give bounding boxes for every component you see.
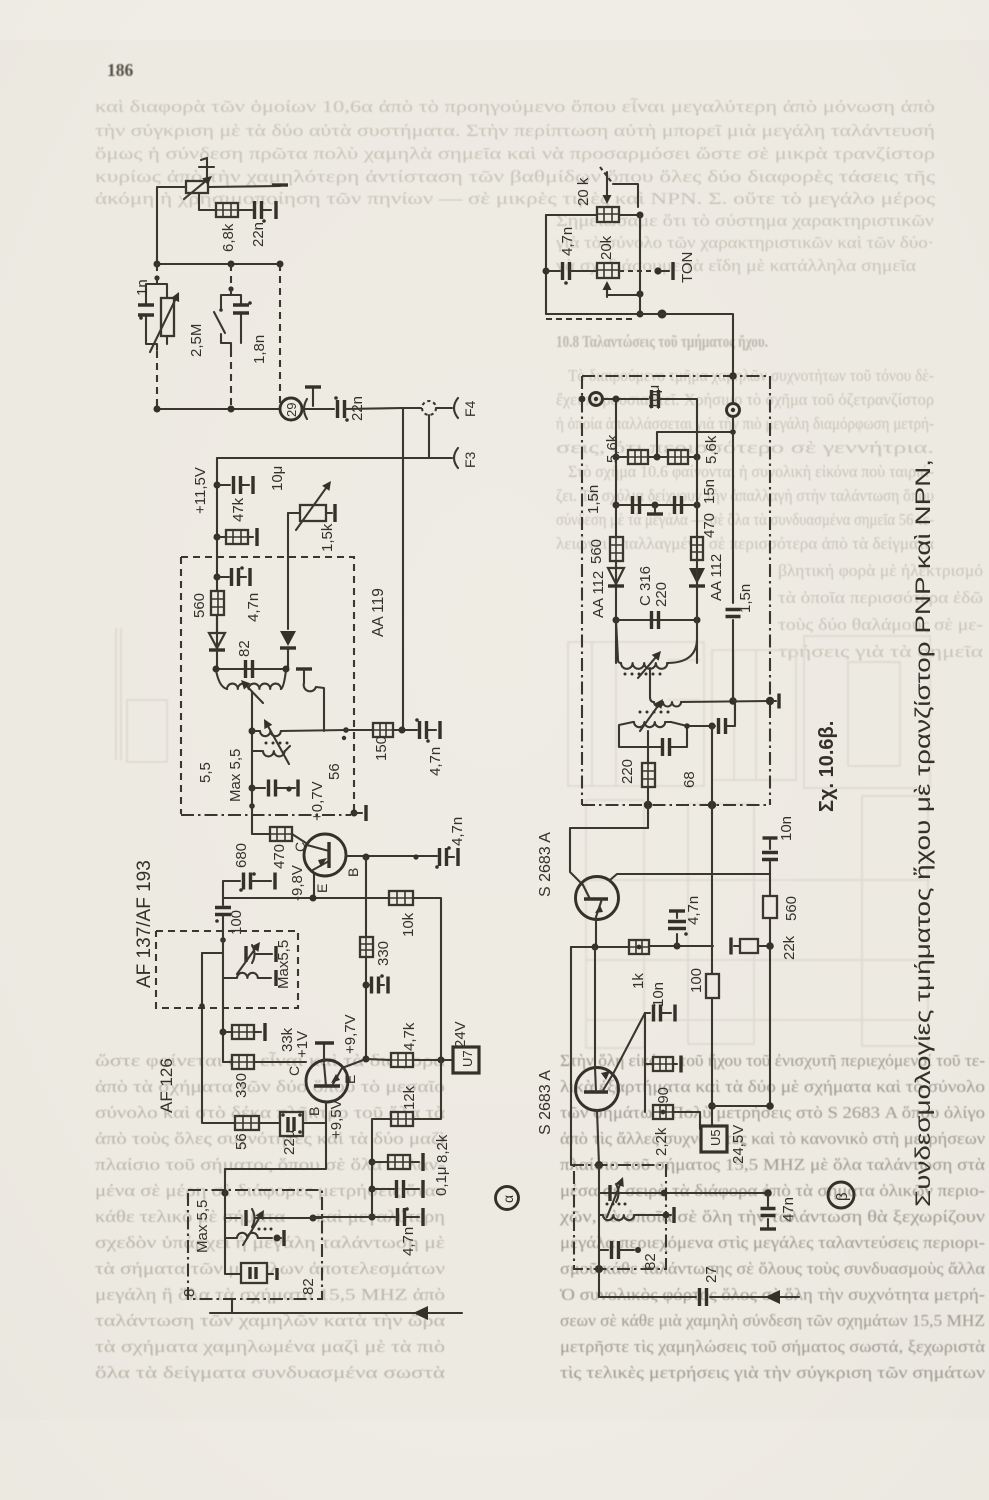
trimmer cap Max5,5	[237, 942, 276, 974]
label -9,8V	[289, 865, 306, 901]
dash-dot box bottom	[181, 805, 366, 821]
label +0,7V	[309, 781, 326, 821]
wire 68 drop	[711, 726, 713, 805]
wire emitter row	[366, 1059, 391, 1060]
dot under 22n	[262, 219, 266, 223]
label B	[306, 1107, 322, 1116]
label 10u	[269, 466, 286, 491]
label F4	[462, 400, 478, 417]
potentiometer 1,5k	[288, 481, 335, 530]
label 27	[703, 1266, 720, 1283]
label AA 112	[708, 554, 725, 601]
label 2,5M	[188, 324, 205, 357]
resistor 330 collector	[223, 1055, 306, 1069]
wire signal vertical x403	[402, 408, 404, 730]
label 24V	[452, 1021, 469, 1048]
trimmer cap 1n network	[138, 278, 179, 352]
label AF 126	[157, 1058, 176, 1113]
label S 2683 A t4	[537, 1070, 554, 1135]
wire 20k row	[546, 212, 644, 219]
label AA112	[590, 571, 607, 618]
label 330	[233, 1073, 250, 1098]
capacitor 82	[246, 660, 253, 678]
transformer2 mid coil	[650, 697, 774, 707]
signal arrow line b	[599, 1290, 799, 1304]
label 0,1u	[433, 1167, 450, 1197]
diode D2 AA119	[280, 631, 296, 669]
capacitor 15n b	[675, 496, 682, 514]
label 5,5	[197, 762, 214, 783]
capacitor 220	[652, 611, 659, 629]
wire emitter row	[571, 944, 629, 951]
signal arrow line a	[210, 1306, 462, 1320]
wire dashed	[279, 264, 281, 409]
wiper arrow	[603, 281, 644, 298]
label 1,5n	[737, 584, 754, 613]
capacitor 1,5n top	[726, 432, 741, 701]
diode D1	[209, 633, 225, 669]
label 4,7k	[401, 1022, 418, 1051]
label 220	[653, 582, 670, 607]
connector socket dashed	[422, 401, 436, 415]
label 220	[619, 759, 636, 784]
label 82	[236, 640, 253, 657]
label 82	[300, 1278, 317, 1295]
label C	[286, 1066, 302, 1076]
wire y409	[154, 406, 281, 413]
wire	[696, 457, 698, 663]
wire	[657, 429, 736, 457]
wire bias column	[644, 1013, 646, 1112]
wire	[199, 193, 216, 210]
label AA 119	[370, 588, 387, 637]
resistor 220 damp	[642, 731, 655, 805]
resistor 100	[706, 974, 719, 998]
wire dashed	[230, 264, 232, 287]
node	[220, 937, 226, 943]
wire stub b	[598, 1269, 600, 1297]
supply box U5 24,5V	[701, 1126, 727, 1152]
dashed box trimmer	[156, 931, 298, 1008]
diode AA112 left	[608, 568, 624, 586]
wire base link T3	[570, 828, 648, 885]
wire	[208, 186, 280, 187]
wire	[302, 408, 334, 410]
wire mid x713	[711, 805, 713, 974]
potentiometer 20k a	[597, 207, 619, 222]
resistor 12k	[391, 1112, 413, 1126]
wire	[413, 1060, 441, 1119]
wire emitter row	[223, 895, 389, 902]
tuning arrow t2	[640, 699, 663, 731]
tank loop	[619, 722, 716, 747]
wire dashed	[156, 264, 158, 276]
designator a	[496, 1187, 519, 1210]
label 6,8k	[220, 223, 237, 252]
label TON	[679, 252, 696, 283]
wire AGC x288	[287, 513, 289, 629]
wire divider x616	[613, 399, 620, 663]
mic polarisation	[304, 387, 321, 419]
resistor 470 d	[691, 537, 703, 560]
capacitor 4,7n agc	[217, 566, 250, 586]
plug F4	[454, 398, 458, 418]
resistor 56	[203, 1116, 280, 1130]
wire base t4	[597, 1110, 599, 1165]
resistor 560	[211, 591, 224, 615]
label 8	[181, 1289, 198, 1297]
wire drop to F3 row	[428, 415, 430, 458]
capacitor 4,7n out	[310, 1207, 424, 1226]
wire 82 row	[213, 666, 290, 673]
label 560	[191, 593, 208, 618]
capacitor 680	[223, 872, 275, 898]
label 4,7n det	[427, 747, 444, 776]
transformer secondary coil	[252, 730, 346, 736]
capacitor 10n t4	[645, 1005, 675, 1022]
transformer2 low coil	[633, 722, 671, 727]
wire	[238, 209, 252, 211]
wire emitter	[595, 917, 597, 947]
capacitor 82 b	[599, 1241, 641, 1259]
label 10u	[646, 385, 663, 410]
trimmer row b	[599, 1189, 772, 1197]
label AF 137/AF 193	[134, 860, 155, 988]
label S 2683 A t3	[537, 832, 554, 897]
label 1,5k	[319, 523, 336, 552]
coil tone	[225, 1218, 284, 1246]
capacitor bypass	[366, 974, 388, 993]
ground tap	[647, 505, 663, 514]
core dots	[265, 742, 289, 745]
capacitor 10u	[217, 476, 253, 494]
label 150	[373, 736, 390, 761]
resistor 5,6k b	[668, 450, 688, 464]
wire 220 row	[616, 617, 701, 624]
node out	[658, 310, 667, 319]
resistor 2,2k	[653, 1105, 700, 1129]
wire rail y458	[217, 457, 452, 459]
label 15n	[701, 479, 718, 504]
label 4,7n	[449, 817, 466, 846]
caption fig number	[816, 721, 838, 812]
node	[579, 396, 586, 403]
capacitor 22n mic	[334, 396, 349, 422]
capacitor 1,5n link	[712, 701, 735, 734]
transistor T3 S2683A	[576, 877, 619, 920]
capacitor 22n	[255, 201, 262, 219]
capacitor 47n b	[760, 1193, 776, 1229]
node box bottom	[249, 803, 255, 809]
collector measure point	[315, 1043, 334, 1062]
wire	[363, 957, 370, 1059]
wire	[708, 998, 716, 1126]
wire emitter	[313, 874, 315, 898]
capacitor 0,1u	[372, 1180, 423, 1198]
wire	[598, 1165, 600, 1269]
wire	[157, 187, 186, 264]
wire	[220, 978, 227, 1062]
label +11,5V	[192, 467, 209, 514]
wire emitter	[342, 1056, 370, 1069]
core dots t2	[624, 673, 662, 676]
label 10n	[778, 816, 795, 841]
node	[729, 372, 737, 380]
label B	[345, 868, 361, 877]
terminal TON	[661, 262, 673, 280]
label 12k	[401, 1085, 418, 1110]
label 20k	[598, 235, 615, 260]
capacitor 100	[215, 898, 231, 940]
trimmer row	[225, 1217, 322, 1219]
trimmer cap b	[607, 1177, 624, 1217]
label Max 5,5	[194, 1200, 211, 1253]
tuning arrow long	[264, 719, 289, 764]
label +9,7V	[342, 1014, 359, 1054]
label 10n	[650, 982, 667, 1007]
wire 5,6k row	[616, 454, 701, 461]
tank capacitor 68	[663, 738, 670, 756]
label F3	[462, 451, 478, 468]
label C 316	[637, 566, 654, 606]
wire 1,5n row	[616, 502, 701, 509]
terminal bar	[772, 694, 779, 709]
wire	[603, 396, 648, 403]
wire dash to TON	[619, 267, 662, 274]
wire bus y264	[154, 261, 284, 268]
label 56	[233, 1133, 250, 1150]
wire stub	[231, 1299, 233, 1313]
wire	[436, 407, 452, 409]
label 1k	[630, 973, 647, 989]
label 22n	[250, 222, 267, 247]
label Max5,5	[275, 940, 292, 989]
label +1V	[294, 1031, 311, 1058]
resistor 1k	[629, 940, 649, 954]
label 1,5n	[585, 485, 602, 514]
switch 2,5M with cap 1,8n	[214, 289, 252, 350]
coil trimmer	[223, 970, 276, 986]
label 10k	[400, 912, 417, 937]
label 330	[375, 941, 392, 966]
designator b	[828, 1182, 854, 1208]
dashed box AF137 stage	[181, 557, 354, 814]
label 560	[783, 896, 800, 921]
core dots t2b	[639, 711, 670, 714]
node	[154, 275, 159, 280]
tap bar	[296, 669, 312, 683]
label 4,7n	[685, 896, 702, 925]
capacitor 10n top	[762, 838, 778, 874]
capacitor 10u coupling	[652, 390, 698, 457]
label Max 5,5	[227, 749, 244, 802]
dash-dot box tone b	[571, 1165, 666, 1269]
microphone 29	[280, 398, 302, 420]
node	[343, 727, 349, 733]
capacitor 4,7n det	[415, 718, 440, 743]
node	[228, 286, 233, 291]
wire	[345, 408, 421, 409]
wire base divider x366	[365, 857, 367, 937]
capacitor 0,7V node	[252, 780, 298, 797]
wire	[202, 940, 223, 978]
resistor 22k	[731, 938, 774, 955]
label 4,7n	[400, 1227, 417, 1256]
wire	[262, 201, 276, 219]
label 82 b	[642, 1253, 659, 1270]
tuning arrow	[241, 680, 263, 703]
terminal probe symbol	[199, 158, 214, 182]
wire collector feed T3	[647, 805, 649, 828]
terminal bar	[272, 183, 288, 186]
label 20 k	[575, 177, 592, 206]
tap coil	[304, 683, 324, 731]
resistor 33k	[223, 1023, 265, 1041]
input dashed arrow	[600, 167, 638, 207]
dash-dot box tone	[188, 1190, 322, 1299]
capacitor 1,5n a	[633, 496, 640, 514]
dash-dot box demodulator	[582, 376, 770, 805]
wire	[216, 615, 218, 631]
resistor 470	[270, 827, 292, 841]
label C	[292, 842, 308, 852]
wire right x640	[639, 215, 641, 314]
jack socket left	[590, 393, 603, 406]
wire	[292, 834, 306, 843]
wire feed down	[570, 947, 572, 1165]
wire left bus x202	[199, 953, 205, 1123]
label 5,6k	[604, 434, 621, 463]
label 22n	[349, 396, 366, 421]
resistor 4,7k	[391, 1053, 413, 1067]
wire 150 row	[346, 727, 417, 734]
label 470	[701, 513, 718, 538]
resistor 8,2k	[372, 1153, 423, 1171]
label 24,5V	[730, 1125, 747, 1164]
transformer primary coil	[216, 670, 286, 689]
label 390	[655, 1087, 672, 1112]
wire	[413, 1057, 453, 1064]
resistor 6,8k	[216, 203, 238, 217]
label 47n	[780, 1197, 797, 1222]
wire	[369, 1119, 392, 1221]
label 4,7n	[245, 593, 262, 622]
label 680	[233, 843, 250, 868]
resistor 10k	[389, 891, 413, 905]
resistor 330 base	[360, 937, 373, 957]
label 1n	[134, 279, 151, 296]
wire rail column x217	[214, 458, 221, 651]
jack socket right	[727, 376, 740, 432]
caption text	[912, 459, 935, 1207]
wire emitter t4	[613, 1013, 645, 1074]
potentiometer P1 volume	[184, 176, 212, 199]
resistor 560 d	[610, 537, 623, 561]
wire to IF box	[640, 314, 733, 376]
wire supply x770	[769, 946, 771, 1106]
transformer winding 3	[252, 746, 290, 756]
label 1,8n	[251, 335, 268, 364]
coil b	[599, 1207, 674, 1223]
transistor T2 AF126	[306, 1060, 348, 1102]
wire secondary vertical	[249, 692, 256, 792]
resistor 150	[373, 723, 393, 737]
label 56	[326, 763, 343, 780]
transistor T1 AF137	[304, 834, 346, 876]
node entry	[221, 1189, 228, 1196]
wire dashed	[156, 351, 158, 409]
capacitor 4,7n t3	[668, 911, 688, 946]
core dots	[258, 1228, 273, 1231]
transformer2 top coil	[616, 620, 697, 669]
label 22k	[781, 935, 798, 960]
capacitor 4,7n tone	[546, 262, 597, 285]
coupling link	[649, 668, 651, 697]
wire left x546	[543, 215, 550, 314]
capacitor 27	[700, 1288, 707, 1306]
label 470	[271, 844, 288, 869]
wire to 470	[252, 788, 270, 834]
resistor 5,6k a	[628, 450, 648, 464]
label 8,2k	[434, 1134, 451, 1163]
core dots b	[606, 1203, 627, 1206]
wire row	[712, 1102, 774, 1110]
label E	[342, 1075, 358, 1084]
wire feedback	[225, 1123, 326, 1190]
label 47k	[230, 497, 247, 522]
label +9,5V	[328, 1099, 345, 1139]
wire	[413, 898, 441, 1059]
node small	[342, 736, 346, 740]
wire base	[303, 1102, 326, 1123]
capacitor 82 boxed	[225, 1238, 277, 1283]
resistor 390	[645, 1056, 681, 1073]
trimmer cap	[243, 1209, 264, 1245]
label 5,6k	[703, 435, 720, 464]
plug F3	[454, 448, 458, 468]
wire collector	[610, 874, 770, 880]
node	[595, 1265, 603, 1273]
potentiometer 20k b	[597, 263, 619, 278]
resistor 560 load	[763, 874, 777, 946]
wire bottom	[546, 311, 644, 318]
dash-dot bus ground	[582, 801, 770, 809]
wire T3T4 link	[594, 947, 596, 1067]
label 100	[228, 910, 245, 935]
label 22u	[281, 1130, 298, 1155]
tuning arrow	[638, 651, 661, 678]
label 2,2k	[653, 1127, 670, 1156]
diode AA112 right	[689, 568, 705, 586]
label 100	[688, 968, 705, 993]
label 4,7n	[559, 227, 576, 256]
label 33k	[279, 1027, 296, 1052]
resistor 47k	[217, 528, 257, 546]
wire base	[346, 854, 437, 861]
supply box U7 24V	[453, 1047, 479, 1073]
node	[595, 1161, 603, 1169]
wire dashed return	[546, 318, 634, 320]
label E	[314, 884, 330, 893]
label 68	[681, 771, 698, 788]
transistor T4 S2683A	[576, 1067, 619, 1111]
label 560	[588, 539, 605, 564]
capacitor 4,7n base	[435, 846, 458, 869]
wire dashed	[230, 350, 232, 409]
wire	[649, 943, 713, 950]
capacitor 22u boxed	[280, 1112, 303, 1136]
wire	[224, 1190, 226, 1218]
